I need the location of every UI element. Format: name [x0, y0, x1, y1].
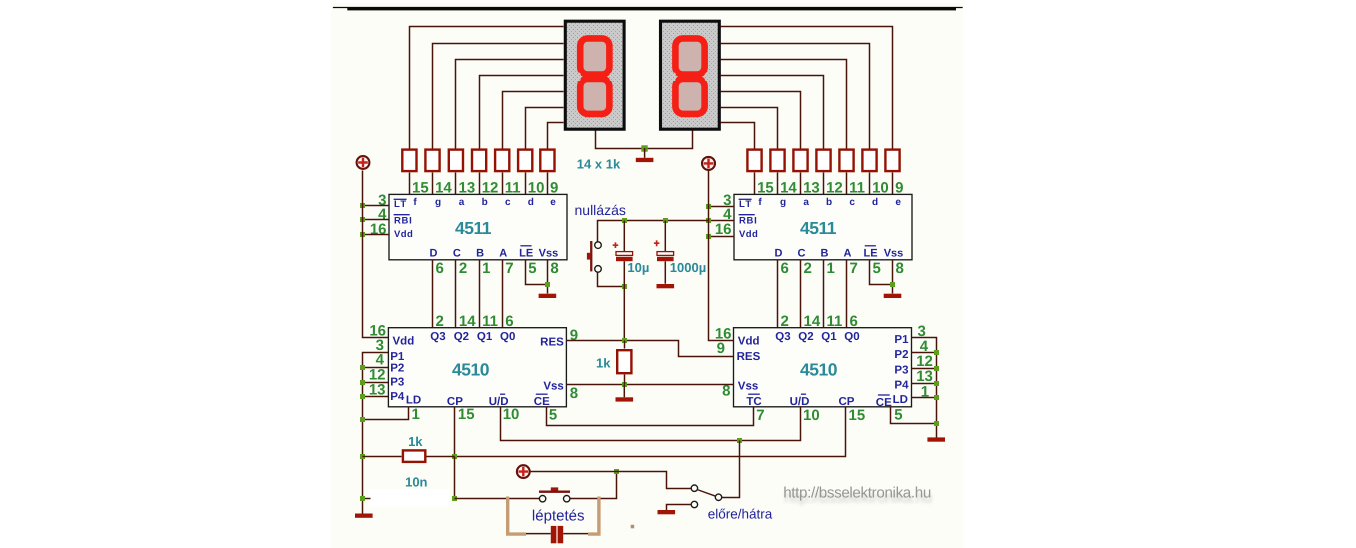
svg-text:10µ: 10µ — [627, 260, 649, 275]
U3 pin names left Vdd P1 P2 P3 P4 — [390, 335, 414, 402]
svg-text:8: 8 — [896, 260, 904, 277]
svg-text:A: A — [499, 248, 507, 260]
svg-text:P1: P1 — [390, 351, 405, 363]
svg-text:10n: 10n — [405, 475, 427, 490]
wire nullazas bottom to C1 — [598, 273, 625, 287]
svg-text:6: 6 — [781, 260, 789, 277]
svg-text:1: 1 — [827, 260, 835, 277]
svg-text:e: e — [895, 197, 901, 208]
svg-text:15: 15 — [458, 406, 475, 423]
IC U3 4510 box — [388, 328, 566, 407]
power +V symbol right — [702, 157, 715, 170]
wire DISP1 segment row 7 to resistor column — [548, 123, 564, 149]
power +V symbol left — [357, 156, 370, 169]
wire U1 BCD to U3 — [479, 260, 481, 328]
wire DISP2 segment row 6 to resistor column — [721, 108, 778, 149]
wire R8 to 4511 U2 pin — [754, 173, 756, 195]
wire +V bus to U1 left pin at y=206 — [363, 205, 389, 207]
wire +V bus to U1 left pin at y=220 — [363, 219, 389, 221]
U4 pin names right P1 P2 P3 P4 LD — [893, 334, 909, 406]
resistor R3 (1k) left bank — [449, 150, 463, 172]
svg-text:Vdd: Vdd — [738, 335, 760, 347]
capacitor C2 1000u — [654, 221, 674, 284]
wire R15 top — [624, 341, 626, 349]
7-segment display DISP1 (showing 8) — [565, 21, 624, 129]
svg-text:előre/hátra: előre/hátra — [708, 507, 773, 522]
svg-text:P3: P3 — [894, 364, 908, 376]
resistor R16 1k horizontal — [403, 450, 425, 462]
wire R16 to CP node — [427, 456, 455, 458]
wire U4 CE to rail — [891, 407, 937, 424]
svg-text:P4: P4 — [390, 391, 405, 403]
wire U3 CP down — [454, 407, 456, 457]
resistor R2 (1k) left bank — [425, 150, 439, 172]
wire R15 bottom — [624, 375, 626, 385]
svg-text:LT: LT — [394, 199, 408, 210]
wire R6 to 4511 U1 pin — [525, 173, 527, 195]
svg-text:P2: P2 — [894, 349, 908, 361]
node U/D switch junction — [737, 438, 742, 443]
wire ground rail left (P1-P4, LD) — [363, 353, 389, 514]
wire DISP1 segment row 2 to resistor column — [433, 44, 564, 149]
svg-text:P3: P3 — [390, 377, 404, 389]
svg-text:C: C — [453, 248, 461, 260]
U3 bottom pin numbers 1 15 10 5 — [412, 406, 558, 423]
svg-text:15: 15 — [849, 407, 866, 424]
wire R12 to 4511 U2 pin — [846, 173, 848, 195]
svg-text:8: 8 — [550, 260, 558, 277]
svg-text:5: 5 — [528, 260, 536, 277]
svg-text:5: 5 — [894, 407, 902, 424]
svg-text:7: 7 — [850, 260, 858, 277]
resistor R14 (1k) right bank — [885, 150, 899, 172]
svg-text:13: 13 — [369, 381, 386, 398]
pin numbers 15-9 of U1 — [412, 179, 558, 196]
resistor R10 (1k) right bank — [793, 150, 807, 172]
wire RES node to U4 RES — [625, 341, 734, 357]
wire DISP1 segment row 4 to resistor column — [480, 76, 564, 149]
svg-text:Vss: Vss — [884, 248, 904, 260]
wire R7 to 4511 U1 pin — [547, 173, 549, 195]
U2 bottom pin numbers 6 2 1 7 5 8 — [781, 260, 904, 277]
label U3 P-pin numbers 3 4 12 13 — [369, 337, 386, 398]
svg-text:c: c — [505, 197, 511, 208]
svg-text:D: D — [430, 248, 438, 260]
svg-text:d: d — [528, 197, 534, 208]
svg-text:g: g — [435, 197, 441, 208]
7-segment display DISP2 (showing 8) — [661, 21, 720, 129]
U3 top pin labels Q3 Q2 Q1 Q0 — [430, 331, 515, 343]
svg-text:4510: 4510 — [452, 359, 490, 379]
wire DISP2 segment row 3 to resistor column — [721, 60, 847, 149]
node rail 10n row — [360, 496, 365, 501]
ground (right rail) — [927, 437, 945, 441]
capacitor C3 (debounce) — [526, 526, 588, 543]
wire R13 to 4511 U2 pin — [869, 173, 871, 195]
svg-text:RBI: RBI — [739, 215, 757, 226]
svg-text:LD: LD — [406, 395, 421, 407]
contact leptetes right — [564, 496, 570, 502]
svg-text:D: D — [775, 248, 783, 260]
node C1 bottom junction — [622, 284, 627, 289]
wire DISP2 segment row 5 to resistor column — [721, 92, 801, 149]
svg-text:1: 1 — [482, 260, 490, 277]
svg-text:léptetés: léptetés — [532, 508, 585, 525]
svg-text:LE: LE — [863, 248, 877, 260]
node LD/ground rail — [360, 417, 365, 422]
wire +V bus right down to U4 Vdd — [709, 171, 734, 341]
svg-text:6: 6 — [505, 313, 513, 330]
svg-text:Vdd: Vdd — [393, 335, 415, 347]
wire U1 BCD to U3 — [502, 260, 504, 328]
ground (U2 LE,Vss) — [884, 294, 902, 298]
svg-text:P4: P4 — [894, 379, 909, 391]
wire rail to R16 — [363, 456, 402, 458]
wire R3 to 4511 U1 pin — [455, 173, 457, 195]
contact leptetes left — [539, 496, 545, 502]
wire U3 RES to node — [567, 340, 625, 342]
svg-text:14: 14 — [459, 313, 476, 330]
svg-text:Q2: Q2 — [454, 331, 469, 343]
wire U3 U/D to U4 U/D — [501, 407, 801, 441]
ground (U1 LE,Vss) — [539, 294, 557, 298]
top border line — [333, 7, 963, 9]
svg-text:5: 5 — [873, 260, 881, 277]
svg-text:4511: 4511 — [455, 218, 492, 238]
pushbutton leptetes — [539, 487, 570, 493]
svg-text:10: 10 — [503, 406, 520, 423]
wire ground rail to U3 pin y=382 — [363, 382, 389, 384]
svg-text:6: 6 — [850, 313, 858, 330]
U1 bottom pin labels D C B A LE Vss — [430, 246, 559, 260]
svg-text:9: 9 — [570, 327, 578, 344]
pin numbers 15-9 of U2 — [757, 179, 903, 196]
svg-text:11: 11 — [827, 313, 843, 330]
svg-text:1k: 1k — [408, 434, 423, 449]
svg-text:14 x 1k: 14 x 1k — [577, 156, 621, 171]
svg-text:7: 7 — [505, 260, 513, 277]
wire selector common to U/D — [722, 441, 740, 498]
wire DISP1 segment row 6 to resistor column — [526, 108, 564, 149]
contact nullazas bottom — [595, 266, 602, 273]
wire display common cathodes — [596, 131, 693, 149]
wire +V bus to U2 left pin at y=206 — [709, 206, 735, 208]
node cap C2 top — [663, 218, 668, 223]
svg-text:Q1: Q1 — [477, 331, 493, 343]
wire U3 Vss to U4 Vss — [567, 384, 734, 386]
wire DISP2 segment row 1 to resistor column — [721, 27, 893, 149]
resistor R11 (1k) right bank — [816, 150, 830, 172]
wire R10 to 4511 U2 pin — [800, 173, 802, 195]
svg-text:Q3: Q3 — [430, 331, 445, 343]
svg-text:P1: P1 — [894, 334, 909, 346]
power +V symbol (controls) — [517, 465, 530, 478]
wire R1 to 4511 U1 pin — [409, 173, 411, 195]
svg-text:c: c — [849, 197, 855, 208]
wire U1 BCD to U3 — [432, 260, 434, 328]
U3 bottom pin labels LD CP U/D CE — [406, 394, 550, 408]
U4 top pin labels Q3 Q2 Q1 Q0 — [775, 331, 859, 343]
wire DISP1 segment row 3 to resistor column — [456, 60, 564, 149]
node display common junction — [641, 145, 647, 151]
wire U4 right pin to rail y=398 — [912, 397, 937, 399]
wire DISP1 segment row 1 to resistor column — [410, 27, 564, 149]
svg-text:Q0: Q0 — [500, 331, 515, 343]
resistor R15 1k body — [617, 350, 631, 373]
ground (display commons) — [636, 148, 654, 162]
wire +V bus to U2 left pin at y=221 — [709, 220, 735, 222]
top border bar — [347, 8, 956, 11]
wire R5 to 4511 U1 pin — [502, 173, 504, 195]
wire U4 P1 and right ground rail — [912, 338, 937, 438]
svg-text:8: 8 — [570, 385, 578, 402]
svg-text:CE: CE — [534, 396, 550, 408]
svg-text:a: a — [459, 197, 465, 208]
svg-text:1: 1 — [412, 406, 420, 423]
U4 top pin numbers 2 14 11 6 — [781, 313, 858, 330]
svg-text:Vss: Vss — [543, 380, 563, 392]
wire U1 Vss to ground — [547, 260, 549, 294]
resistor R8 (1k) right bank — [747, 150, 761, 172]
svg-text:e: e — [550, 197, 556, 208]
wire +V to selector up contact — [531, 472, 692, 489]
svg-text:RES: RES — [737, 351, 761, 363]
node U2 LE/Vss junction — [890, 282, 895, 287]
svg-text:6: 6 — [436, 260, 444, 277]
wire stub at ground rail 10n row — [363, 498, 371, 500]
node U1 LE/Vss junction — [545, 282, 550, 287]
svg-text:LE: LE — [519, 248, 533, 260]
tan mark — [631, 525, 635, 529]
wire U3 CE to U4 TC — [547, 407, 754, 426]
svg-text:a: a — [803, 197, 809, 208]
node Vss/R3 bottom — [622, 382, 627, 387]
U4 left pin numbers 16 9 8 — [715, 326, 732, 400]
svg-text:14: 14 — [804, 313, 821, 330]
wire to step button left contact — [455, 498, 540, 500]
pushbutton nullazas — [587, 241, 592, 271]
svg-text:LD: LD — [893, 394, 908, 406]
wire U2 BCD to U4 — [823, 260, 825, 328]
contact nullazas top — [595, 242, 602, 249]
wire R11 to 4511 U2 pin — [823, 173, 825, 195]
U4 right pin numbers 3 4 12 13 1 — [916, 323, 933, 400]
wire leptetes to +V node — [570, 472, 617, 499]
svg-text:Vdd: Vdd — [739, 229, 758, 240]
svg-text:Vss: Vss — [738, 380, 758, 392]
ground (C2) — [657, 284, 675, 288]
IC U1 4511 box — [389, 194, 567, 259]
svg-text:Vss: Vss — [539, 248, 559, 260]
IC U2 4511 box — [734, 194, 912, 259]
resistor R1 (1k) left bank — [402, 150, 416, 172]
svg-text:16: 16 — [370, 221, 387, 238]
U1 left pin numbers 3 4 16 — [370, 192, 387, 238]
wire selector down contact to ground — [667, 505, 692, 511]
ground (R15) — [616, 385, 634, 402]
wire R14 to 4511 U2 pin — [892, 173, 894, 195]
U1 top pin labels f g a b c d e — [413, 197, 556, 208]
wire ground rail to U3 pin y=367 — [363, 367, 389, 369]
svg-text:B: B — [821, 248, 829, 260]
node rail/R16 — [360, 454, 365, 459]
svg-text:nullázás: nullázás — [575, 202, 626, 218]
wire U4 right pin to rail y=352 — [912, 352, 937, 354]
svg-text:2: 2 — [781, 313, 789, 330]
resistor R6 (1k) left bank — [518, 150, 532, 172]
U3 top pin numbers 2 14 11 6 — [436, 313, 514, 330]
svg-text:2: 2 — [804, 260, 812, 277]
wire CP bus to U4 CP — [455, 407, 846, 457]
wire R9 to 4511 U2 pin — [777, 173, 779, 195]
wire DISP2 segment row 2 to resistor column — [721, 44, 870, 149]
ground (left rail) — [355, 514, 373, 518]
wire +V bus to U2 left pin at y=236 — [709, 236, 735, 238]
svg-text:d: d — [872, 197, 878, 208]
svg-text:Q2: Q2 — [798, 331, 813, 343]
wire U4 right pin to rail y=383 — [912, 383, 937, 385]
svg-text:2: 2 — [459, 260, 467, 277]
wire CP node down to step button — [454, 457, 456, 499]
svg-text:16: 16 — [715, 221, 732, 238]
node CP/R16 — [452, 454, 457, 459]
wire nullazas top rail — [598, 221, 709, 242]
IC U4 4510 box — [734, 328, 912, 407]
node cap C1 top — [622, 218, 627, 223]
svg-text:CE: CE — [876, 397, 892, 409]
svg-text:b: b — [482, 197, 488, 208]
resistor R12 (1k) right bank — [839, 150, 853, 172]
svg-text:P2: P2 — [390, 362, 404, 374]
wire U3 LD to ground rail — [363, 407, 409, 420]
svg-text:4510: 4510 — [800, 359, 838, 379]
wire DISP1 segment row 5 to resistor column — [503, 92, 564, 149]
svg-text:1k: 1k — [596, 356, 611, 371]
svg-text:http://bsselektronika.hu: http://bsselektronika.hu — [783, 485, 931, 502]
wire U2 Vss to ground — [892, 260, 894, 294]
svg-text:g: g — [780, 197, 786, 208]
node leptetes/+V — [614, 469, 619, 474]
wire R4 to 4511 U1 pin — [479, 173, 481, 195]
wire +V bus left down to U3 Vdd — [363, 171, 389, 338]
resistor R7 (1k) left bank — [540, 150, 554, 172]
white patch under 10n — [369, 490, 449, 507]
svg-text:C: C — [798, 248, 806, 260]
debounce capacitor frame (tan) — [508, 497, 599, 535]
svg-text:1000µ: 1000µ — [670, 260, 706, 275]
svg-text:b: b — [826, 197, 832, 208]
U4 bottom pin numbers 7 10 15 5 — [756, 407, 902, 424]
svg-text:10: 10 — [803, 407, 820, 424]
svg-text:RES: RES — [540, 336, 564, 348]
resistor R9 (1k) right bank — [770, 150, 784, 172]
svg-text:B: B — [476, 248, 484, 260]
wire U2 BCD to U4 — [846, 260, 848, 328]
wire DISP2 segment row 4 to resistor column — [721, 76, 824, 149]
svg-text:9: 9 — [717, 340, 725, 357]
resistor R13 (1k) right bank — [862, 150, 876, 172]
wire U1 BCD to U3 — [455, 260, 457, 328]
svg-text:LT: LT — [739, 199, 753, 210]
U2 left pin numbers 3 4 16 — [715, 192, 732, 238]
wire U2 LE to ground — [870, 260, 893, 285]
svg-text:7: 7 — [756, 407, 764, 424]
U2 bottom pin labels D C B A LE Vss — [775, 246, 904, 260]
node step button — [452, 496, 457, 501]
U4 bottom pin labels TC U/D CP CE — [746, 394, 892, 409]
wire ground rail to U3 pin y=396 — [363, 396, 389, 398]
node RES — [622, 338, 627, 343]
U1 bottom pin numbers 6 2 1 7 5 8 — [436, 260, 559, 277]
svg-text:Q1: Q1 — [821, 331, 837, 343]
switch elore/hatra (SPDT) — [691, 485, 722, 508]
svg-text:4511: 4511 — [800, 218, 837, 238]
resistor R4 (1k) left bank — [472, 150, 486, 172]
svg-text:RBI: RBI — [394, 215, 412, 226]
svg-text:2: 2 — [436, 313, 444, 330]
svg-text:11: 11 — [482, 313, 498, 330]
ground (selector) — [658, 510, 676, 514]
U3 right pin numbers 9 8 — [570, 327, 578, 402]
wire DISP2 segment row 7 to resistor column — [721, 123, 755, 149]
svg-text:Q3: Q3 — [775, 331, 790, 343]
svg-text:Q0: Q0 — [844, 331, 859, 343]
wire U1 LE to ground — [526, 260, 548, 285]
svg-text:Vdd: Vdd — [394, 229, 413, 240]
U4 pin names left Vdd RES Vss — [737, 335, 761, 392]
wire U2 BCD to U4 — [800, 260, 802, 328]
wire U2 BCD to U4 — [777, 260, 779, 328]
resistor R5 (1k) left bank — [495, 150, 509, 172]
capacitor C1 10u — [613, 221, 633, 341]
svg-text:A: A — [844, 248, 852, 260]
U2 top pin labels f g a b c d e — [758, 197, 901, 208]
wire U4 right pin to rail y=368 — [912, 368, 937, 370]
wire R2 to 4511 U1 pin — [432, 173, 434, 195]
node rail/CE — [934, 421, 939, 426]
svg-text:5: 5 — [549, 406, 557, 423]
wire +V bus to U1 left pin at y=234 — [363, 234, 389, 236]
